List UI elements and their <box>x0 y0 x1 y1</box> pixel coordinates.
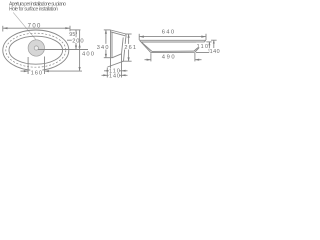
dim 490 line <box>145 59 151 61</box>
dim 140 left arrow <box>103 74 107 76</box>
dim 340 down arrow <box>105 54 107 58</box>
dim 400 down arrow <box>79 67 81 71</box>
dim 110 left arrow <box>107 70 111 72</box>
dim 140 right arrow <box>122 74 126 76</box>
dim 140 (right view) vertical line <box>213 40 215 53</box>
label 110 (middle view) <box>109 68 120 75</box>
dim 140 (right view) top tick <box>211 39 217 41</box>
dim 261 down arrow <box>128 57 130 61</box>
dim 700 extension line left <box>2 26 4 32</box>
svg-text:490: 490 <box>162 54 175 60</box>
svg-text:160: 160 <box>31 71 42 77</box>
dim 490 left arrow <box>147 59 151 61</box>
dim 261 top tick <box>125 33 132 35</box>
label 400 <box>81 50 94 58</box>
inner right wall <box>122 38 124 54</box>
label 95 <box>69 31 76 38</box>
dim 110 line <box>104 70 128 72</box>
middle view bottom extension left (110) <box>110 67 112 73</box>
dim 160 right arrow (outside) <box>45 70 49 72</box>
left inner slant wall <box>141 42 152 51</box>
outer shell bottom slant <box>108 61 124 67</box>
dim 261 up arrow <box>128 34 130 38</box>
dim 160 left arrow (outside) <box>24 70 28 72</box>
dim 400 vertical line <box>79 30 81 71</box>
svg-text:200: 200 <box>72 38 83 44</box>
label 200 <box>72 37 84 44</box>
rim right edge <box>125 34 127 38</box>
left wall outer <box>110 30 112 67</box>
dim 340 vertical line <box>105 30 107 58</box>
dim 640 left arrow <box>139 36 144 38</box>
dim 340 up arrow <box>105 30 107 34</box>
dim 640 right arrow <box>201 36 206 38</box>
left wall inner <box>111 32 113 58</box>
rim top outer line (front) <box>140 39 206 41</box>
dim 160 line with right extension to 400 dim <box>21 70 29 72</box>
svg-text:700: 700 <box>28 24 41 30</box>
dim 110 right arrow <box>122 70 126 72</box>
rim top inner line (front) <box>141 41 204 43</box>
svg-text:640: 640 <box>162 30 174 36</box>
installation hole ellipse (dashed) <box>6 33 66 67</box>
svg-text:140: 140 <box>210 49 220 55</box>
dim 110 (right view) up arrow <box>208 42 210 45</box>
left outer slant wall <box>140 40 151 52</box>
dim 110 (right view) down arrow <box>208 49 210 52</box>
dim 110 (right view) top tick <box>206 41 211 43</box>
bottom outer line (front) <box>151 51 195 53</box>
top reference tick for 95/200/400 <box>70 29 81 31</box>
rim top inner line <box>111 32 126 36</box>
dim 261 bottom tick <box>123 60 132 62</box>
dim 340 bottom tick <box>104 57 112 59</box>
svg-text:Hole for surface installation: Hole for surface installation <box>9 6 58 12</box>
dim 140 (right view) up arrow <box>213 40 215 43</box>
bowl inner edge ellipse <box>9 36 63 64</box>
dim arrow down at centerline <box>75 46 77 50</box>
svg-text:400: 400 <box>82 52 94 58</box>
dim 110 (right view) bottom tick <box>196 52 212 54</box>
dim 700 right arrow <box>65 27 70 29</box>
svg-text:95: 95 <box>69 32 75 38</box>
inner bowl bottom slant <box>112 54 122 58</box>
dim 160 extension line right <box>44 57 46 75</box>
svg-text:110: 110 <box>197 44 208 50</box>
right inner slant wall <box>194 42 204 51</box>
tick at drain top for 95 <box>67 39 78 41</box>
drain circle (shaded) <box>28 40 44 56</box>
middle view bottom extension left (140) <box>106 68 108 78</box>
label 110 (right view) <box>196 42 208 49</box>
label 160 <box>30 69 42 76</box>
dim arrow up at top tick <box>75 30 77 34</box>
dim 340 top tick <box>104 29 111 31</box>
dim 400 up arrow <box>79 44 81 48</box>
dim 95/200 vertical line <box>75 30 77 49</box>
svg-text:261: 261 <box>124 45 136 51</box>
dim 700 extension line right <box>69 26 71 33</box>
dim 110 (right view) vertical line <box>208 42 210 53</box>
dim 700 line <box>3 27 70 29</box>
dim 140 (right view) bottom tick <box>211 52 217 54</box>
label 140 (middle view) <box>109 73 120 80</box>
dim 160 extension line left <box>27 57 29 74</box>
svg-text:140: 140 <box>109 74 120 80</box>
drain hole center circle <box>34 46 38 50</box>
dim 640 extension left <box>138 34 140 40</box>
dim 140 line <box>102 74 128 76</box>
dim 700 left arrow <box>3 27 8 29</box>
rim top outer line <box>111 30 127 34</box>
dim 640 extension right <box>205 34 207 40</box>
bottom inner line (front) <box>152 50 194 52</box>
dim 261 vertical line <box>128 34 130 61</box>
middle view bottom extension right <box>121 54 123 78</box>
outer right wall <box>124 38 126 62</box>
label 490 <box>161 53 174 60</box>
dim 490 extension right <box>194 53 196 62</box>
svg-text:340: 340 <box>97 45 109 51</box>
dim 640 line <box>139 36 206 38</box>
label 640 <box>161 28 174 35</box>
label 140 (right view) <box>209 48 220 55</box>
basin outer rim ellipse (top view) <box>3 30 69 70</box>
drain centerline to the right <box>38 49 88 51</box>
right outer slant wall <box>195 40 206 52</box>
dim 490 right arrow <box>195 59 199 61</box>
label 261 <box>124 44 136 51</box>
leader line from note to drain <box>13 12 40 44</box>
dim 140 (right view) down arrow <box>213 49 215 52</box>
dim 490 extension left <box>150 53 152 61</box>
label 340 <box>96 44 108 51</box>
